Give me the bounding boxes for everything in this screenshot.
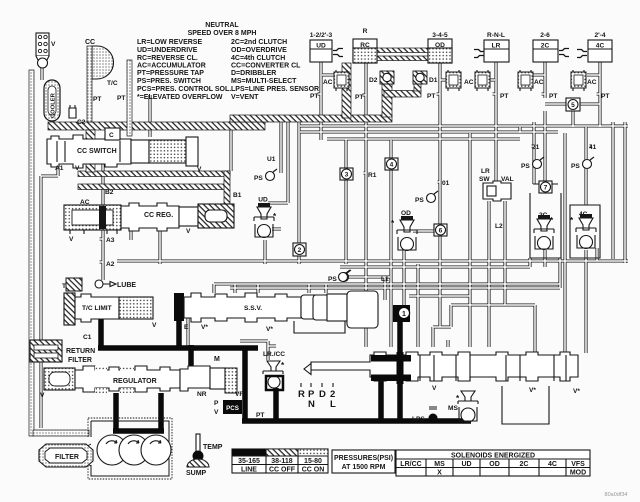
svg-text:AC: AC <box>534 79 544 86</box>
svg-text:S.S.V.: S.S.V. <box>244 305 262 312</box>
svg-text:PT: PT <box>601 93 609 100</box>
svg-text:D: D <box>319 389 326 400</box>
svg-text:C1: C1 <box>83 334 92 341</box>
svg-text:2-6: 2-6 <box>540 32 550 39</box>
svg-text:B2: B2 <box>105 189 114 196</box>
svg-text:5: 5 <box>571 102 575 109</box>
svg-text:TEMP: TEMP <box>203 444 223 451</box>
svg-text:PS: PS <box>571 163 580 170</box>
svg-text:PT: PT <box>93 96 101 103</box>
svg-text:7: 7 <box>544 185 548 192</box>
svg-text:CC ON: CC ON <box>302 467 325 474</box>
svg-text:D1: D1 <box>429 77 438 84</box>
svg-text:MS: MS <box>448 405 458 412</box>
svg-text:FILTER: FILTER <box>68 357 92 364</box>
svg-text:SOLENOIDS ENERGIZED: SOLENOIDS ENERGIZED <box>451 453 535 460</box>
svg-text:CC=CONVERTER CL: CC=CONVERTER CL <box>231 63 301 70</box>
svg-text:V: V <box>75 165 80 172</box>
svg-text:PT: PT <box>355 94 363 101</box>
svg-text:AT 1500 RPM: AT 1500 RPM <box>342 464 386 471</box>
svg-text:VF: VF <box>235 391 243 398</box>
svg-text:PT: PT <box>500 93 508 100</box>
svg-text:PCS: PCS <box>226 405 239 412</box>
svg-text:REGULATOR: REGULATOR <box>113 378 157 385</box>
svg-text:OD: OD <box>435 42 445 49</box>
svg-text:3-4-5: 3-4-5 <box>432 32 448 39</box>
svg-text:P: P <box>214 400 219 407</box>
svg-text:L1: L1 <box>381 276 389 283</box>
svg-text:LR: LR <box>481 168 490 175</box>
svg-text:15-80: 15-80 <box>304 458 322 465</box>
svg-text:6: 6 <box>439 228 443 235</box>
svg-text:PT: PT <box>427 93 435 100</box>
svg-text:LINE: LINE <box>241 467 257 474</box>
svg-text:80a0df34: 80a0df34 <box>605 492 628 498</box>
svg-text:T/C: T/C <box>107 80 118 87</box>
svg-text:LR=LOW REVERSE: LR=LOW REVERSE <box>137 39 202 46</box>
svg-text:2'-4: 2'-4 <box>594 32 605 39</box>
svg-text:MS: MS <box>434 461 445 468</box>
svg-text:*=ELEVATED OVERFLOW: *=ELEVATED OVERFLOW <box>137 94 223 101</box>
svg-text:LPS: LPS <box>412 416 425 423</box>
svg-text:A1: A1 <box>55 165 64 172</box>
svg-text:V*: V* <box>529 387 536 394</box>
svg-text:L: L <box>330 399 336 410</box>
svg-text:4C: 4C <box>579 211 588 218</box>
svg-text:V: V <box>51 41 56 48</box>
svg-text:C2: C2 <box>77 119 86 126</box>
svg-text:NEUTRAL: NEUTRAL <box>205 22 239 29</box>
svg-text:UD: UD <box>316 43 326 50</box>
svg-text:V*: V* <box>201 324 208 331</box>
svg-text:AC: AC <box>587 79 597 86</box>
svg-text:PT: PT <box>256 412 264 419</box>
svg-text:D=DRIBBLER: D=DRIBBLER <box>231 70 276 77</box>
svg-text:01: 01 <box>442 180 450 187</box>
svg-text:SW: SW <box>479 176 490 183</box>
svg-text:VAL: VAL <box>501 176 514 183</box>
svg-text:2C: 2C <box>520 461 529 468</box>
svg-text:X: X <box>437 470 442 477</box>
svg-text:V: V <box>186 228 191 235</box>
svg-text:V: V <box>197 166 202 173</box>
svg-text:PT=PRESSURE TAP: PT=PRESSURE TAP <box>137 70 204 77</box>
svg-text:LR: LR <box>492 43 501 50</box>
svg-text:FILTER: FILTER <box>55 454 79 461</box>
svg-text:NR: NR <box>197 391 207 398</box>
svg-text:2C=2nd CLUTCH: 2C=2nd CLUTCH <box>231 39 287 46</box>
svg-text:AC: AC <box>323 79 333 86</box>
svg-text:CC: CC <box>85 39 95 46</box>
svg-text:U1: U1 <box>267 156 276 163</box>
svg-text:LR/CC: LR/CC <box>400 461 421 468</box>
svg-text:38-118: 38-118 <box>271 458 293 465</box>
svg-text:3: 3 <box>345 172 349 179</box>
svg-text:RC=REVERSE CL.: RC=REVERSE CL. <box>137 55 198 62</box>
svg-text:AC: AC <box>464 79 474 86</box>
svg-text:OD=OVERDRIVE: OD=OVERDRIVE <box>231 47 287 54</box>
svg-text:2C: 2C <box>539 212 548 219</box>
svg-text:C: C <box>109 132 114 139</box>
svg-text:PT: PT <box>310 93 318 100</box>
svg-text:1: 1 <box>402 311 406 318</box>
svg-text:MOD: MOD <box>570 470 586 477</box>
svg-text:OD: OD <box>489 461 500 468</box>
svg-text:R: R <box>363 28 368 35</box>
svg-text:T: T <box>62 283 66 290</box>
svg-text:35-165: 35-165 <box>238 458 260 465</box>
svg-text:SUMP: SUMP <box>186 470 207 477</box>
svg-text:R-N-L: R-N-L <box>487 32 505 39</box>
svg-text:T/C LIMIT: T/C LIMIT <box>82 305 112 312</box>
svg-text:V=VENT: V=VENT <box>231 94 259 101</box>
svg-text:OD: OD <box>401 210 411 217</box>
svg-text:LPS=LINE PRES. SENSOR: LPS=LINE PRES. SENSOR <box>231 86 319 93</box>
svg-text:R1: R1 <box>368 172 377 179</box>
svg-text:41: 41 <box>589 144 597 151</box>
svg-text:2: 2 <box>298 247 302 254</box>
svg-text:V: V <box>69 236 74 243</box>
svg-text:L2: L2 <box>495 223 503 230</box>
svg-text:CC SWITCH: CC SWITCH <box>77 148 117 155</box>
svg-text:COOLER: COOLER <box>51 92 57 118</box>
svg-text:PS: PS <box>328 276 337 283</box>
svg-text:PS: PS <box>521 163 530 170</box>
svg-text:A3: A3 <box>106 237 115 244</box>
svg-text:1-2/2'-3: 1-2/2'-3 <box>310 32 333 39</box>
svg-text:RC: RC <box>360 42 370 49</box>
svg-text:4C=4th CLUTCH: 4C=4th CLUTCH <box>231 55 285 62</box>
svg-text:PCS=PRES. CONTROL SOL.: PCS=PRES. CONTROL SOL. <box>137 86 231 93</box>
svg-text:V: V <box>152 322 157 329</box>
svg-text:PT: PT <box>549 93 557 100</box>
svg-text:V: V <box>40 392 45 399</box>
svg-text:PS=PRES. SWITCH: PS=PRES. SWITCH <box>137 78 201 85</box>
svg-text:2C: 2C <box>541 43 550 50</box>
svg-text:V*: V* <box>573 388 580 395</box>
svg-text:R: R <box>298 389 305 400</box>
svg-text:VFS: VFS <box>571 461 585 468</box>
svg-text:4C: 4C <box>596 43 605 50</box>
svg-text:A2: A2 <box>106 261 115 268</box>
svg-text:V: V <box>432 385 437 392</box>
svg-text:N: N <box>308 399 315 410</box>
svg-text:4: 4 <box>390 162 394 169</box>
svg-text:PS: PS <box>415 197 424 204</box>
svg-text:4C: 4C <box>548 461 557 468</box>
svg-text:MS=MULTI-SELECT: MS=MULTI-SELECT <box>231 78 297 85</box>
svg-text:V: V <box>214 409 219 416</box>
svg-text:PT: PT <box>117 95 125 102</box>
svg-text:D2: D2 <box>369 77 378 84</box>
svg-text:LUBE: LUBE <box>117 282 136 289</box>
svg-text:E: E <box>184 324 189 331</box>
svg-text:M: M <box>214 356 220 363</box>
svg-text:RETURN: RETURN <box>66 348 95 355</box>
svg-text:UD=UNDERDRIVE: UD=UNDERDRIVE <box>137 47 198 54</box>
svg-text:PRESSURES(PSI): PRESSURES(PSI) <box>334 455 393 462</box>
svg-text:PS: PS <box>254 175 263 182</box>
svg-text:LR./CC: LR./CC <box>263 351 285 358</box>
svg-text:SPEED OVER 8 MPH: SPEED OVER 8 MPH <box>188 30 257 37</box>
svg-text:AC=ACCUMULATOR: AC=ACCUMULATOR <box>137 63 206 70</box>
svg-text:UD: UD <box>258 197 268 204</box>
svg-text:B1: B1 <box>233 192 242 199</box>
svg-text:CC REG.: CC REG. <box>144 212 173 219</box>
svg-text:V*: V* <box>266 326 273 333</box>
svg-text:21: 21 <box>532 144 540 151</box>
svg-text:UD: UD <box>461 461 471 468</box>
svg-text:CC OFF: CC OFF <box>269 467 296 474</box>
